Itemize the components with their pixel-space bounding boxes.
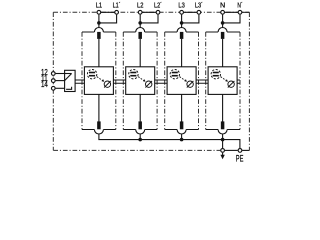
module 2 trigger arrow head	[143, 79, 146, 82]
spark gap 2 top curved electrode	[136, 28, 145, 33]
module 3 gap symbol lower bar	[172, 75, 178, 77]
svg-text:L1: L1	[96, 1, 102, 10]
module 4 trigger arrow head	[225, 79, 228, 82]
wire stub module 4 to PE bus	[222, 134, 224, 140]
terminal L3	[180, 10, 184, 14]
svg-text:14: 14	[41, 80, 48, 89]
module 3 disconnector circle	[187, 81, 193, 87]
module 2 box	[126, 67, 155, 95]
wire terminal 12 to contact box	[56, 73, 65, 75]
svg-text:L3: L3	[178, 1, 184, 10]
module 4 gap symbol lower bar	[213, 75, 219, 77]
module 3 trigger arrow (dashed)	[180, 77, 186, 81]
wire bar to module 3 box	[181, 39, 183, 67]
terminal PE	[238, 149, 242, 153]
wire riser L3´ to junction	[182, 15, 199, 23]
terminal 14	[51, 86, 55, 90]
module 2 enclosure right border (dash-dot)	[156, 32, 158, 130]
wire earth drop	[222, 140, 224, 149]
module 2 enclosure top edge	[123, 31, 157, 33]
node PE bus junction 4	[221, 138, 225, 142]
wire interconnection double line x113.4-125.7	[113, 80, 125, 83]
wire riser N´ to junction	[223, 15, 240, 23]
wire terminal row L2-L2´	[140, 11, 158, 13]
spark gap 1 top bar electrode	[97, 32, 101, 39]
wire module 3 box to bottom bar	[181, 94, 183, 121]
module 3 box	[167, 67, 196, 95]
wire PE terminal to right border	[242, 149, 249, 151]
spark gap 2 top bar electrode	[138, 32, 142, 39]
wire bar to module 4 box	[222, 39, 224, 67]
wire PE bus	[99, 134, 240, 148]
module 2 disconnector slash	[145, 81, 152, 88]
wire terminal row N-N´	[223, 11, 240, 13]
contact 14 stub	[66, 87, 72, 90]
node junction L3	[180, 21, 184, 25]
module 1 gap symbol dashed circle	[87, 70, 96, 79]
module 4 enclosure top edge	[206, 31, 240, 33]
module 4 enclosure left border (dash-dot)	[205, 32, 207, 130]
module 1 enclosure left border (dash-dot)	[81, 32, 83, 130]
module 2 disconnector circle	[146, 81, 152, 87]
terminal N´	[238, 10, 242, 14]
spark gap 2 bottom curved electrode	[136, 130, 145, 135]
wire module 4 box to bottom bar	[222, 94, 224, 121]
device enclosure right border (dash-dot)	[248, 12, 250, 150]
wire interconnection double line x154.7-167.1	[155, 80, 167, 83]
earth arrow	[222, 153, 224, 155]
spark gap 4 top bar electrode	[221, 32, 225, 39]
wire riser L2´ to junction	[140, 15, 158, 23]
module 4 box	[208, 67, 237, 95]
wire terminal row L3-L3´	[182, 11, 199, 13]
node PE bus junction 2	[138, 138, 142, 142]
device enclosure left border (dash-dot)	[52, 12, 54, 150]
module 1 trigger arrow head	[102, 79, 105, 82]
module 3 gap symbol upper bar	[172, 72, 178, 74]
spark gap 1 top curved electrode	[94, 28, 103, 33]
module 2 gap symbol lower bar	[130, 75, 136, 77]
device enclosure bottom border (dash-dot)	[53, 149, 220, 151]
module 3 gap symbol dashed circle	[170, 70, 179, 79]
wire interconnection double line x75.1-84.4	[75, 80, 84, 83]
terminal 11	[51, 79, 55, 83]
module 2 enclosure bottom edge	[123, 129, 157, 131]
module 3 enclosure top edge	[165, 31, 199, 33]
spark gap 3 top curved electrode	[177, 28, 186, 33]
node junction L1	[97, 21, 101, 25]
spark gap 4 bottom bar electrode	[221, 121, 225, 129]
contact box	[65, 70, 76, 91]
module 2 gap symbol upper bar	[130, 72, 136, 74]
wire riser L1	[98, 15, 100, 28]
spark gap 1 bottom bar electrode	[97, 121, 101, 129]
module 3 enclosure bottom edge	[165, 129, 199, 131]
terminal 12	[51, 72, 55, 76]
spark gap 3 top bar electrode	[180, 32, 184, 39]
terminal N	[221, 10, 225, 14]
module 2 gap symbol dashed circle	[129, 70, 138, 79]
module 4 enclosure right border (dash-dot)	[239, 32, 241, 130]
contact 12 stub	[65, 73, 72, 75]
module 4 gap symbol dashed circle	[211, 70, 220, 79]
module 4 disconnector circle	[228, 81, 234, 87]
wire riser L1´ to junction	[99, 15, 117, 23]
module 1 enclosure top edge	[82, 31, 116, 33]
spark gap 3 bottom bar electrode	[180, 121, 184, 129]
wire terminal row N-prime to right border	[242, 11, 249, 13]
spark gap 1 bottom curved electrode	[94, 130, 103, 135]
wire stub module 2 to PE bus	[139, 134, 141, 140]
spark gap 2 bottom bar electrode	[138, 121, 142, 129]
svg-text:L3´: L3´	[195, 1, 203, 10]
module 3 enclosure left border (dash-dot)	[164, 32, 166, 130]
module 1 disconnector slash	[104, 81, 111, 88]
wire bar to module 1 box	[98, 39, 100, 67]
wire terminal 11 to contact box	[56, 80, 65, 82]
wire terminal row L1-L1´	[99, 11, 117, 13]
svg-text:L2: L2	[137, 1, 143, 10]
module 1 gap symbol upper bar	[89, 72, 95, 74]
module 1 enclosure bottom edge	[82, 129, 116, 131]
wire interconnection double line x196.1-208.1	[196, 80, 208, 83]
terminal L1	[97, 10, 101, 14]
wire stub module 3 to PE bus	[181, 134, 183, 140]
node junction L2	[138, 21, 142, 25]
module 1 disconnector circle	[104, 81, 110, 87]
module 3 enclosure right border (dash-dot)	[198, 32, 200, 130]
svg-text:L1´: L1´	[113, 1, 121, 10]
wire riser L2	[139, 15, 141, 28]
wire terminal 14 to contact box	[56, 87, 65, 89]
terminal L1´	[115, 10, 119, 14]
wire riser N	[222, 15, 224, 28]
module 1 box	[84, 67, 113, 95]
module 3 disconnector slash	[187, 81, 194, 88]
wire module 1 box to bottom bar	[98, 94, 100, 121]
module 4 disconnector slash	[228, 81, 235, 88]
device enclosure top border (dash-dot)	[53, 11, 249, 13]
svg-text:PE: PE	[236, 154, 244, 164]
svg-text:L2´: L2´	[154, 1, 162, 10]
spark gap 4 bottom curved electrode	[218, 130, 227, 135]
module 2 enclosure left border (dash-dot)	[122, 32, 124, 130]
terminal earth	[221, 149, 225, 153]
node PE bus junction 3	[180, 138, 184, 142]
svg-text:N´: N´	[237, 1, 242, 10]
module 1 trigger arrow (dashed)	[97, 77, 103, 81]
terminal L2´	[156, 10, 160, 14]
module 4 enclosure bottom edge	[206, 129, 240, 131]
terminal L3´	[197, 10, 201, 14]
wire module 2 box to bottom bar	[139, 94, 141, 121]
svg-text:N: N	[220, 1, 225, 10]
wire riser L3	[181, 15, 183, 28]
node junction N	[221, 21, 225, 25]
module 1 enclosure right border (dash-dot)	[115, 32, 117, 130]
changeover contact arm	[65, 74, 72, 81]
module 3 trigger arrow head	[184, 79, 187, 82]
spark gap 3 bottom curved electrode	[177, 130, 186, 135]
module 4 trigger arrow (dashed)	[221, 77, 227, 81]
wire earth to PE terminal	[225, 149, 238, 151]
module 4 gap symbol upper bar	[213, 72, 219, 74]
spark gap 4 top curved electrode	[218, 28, 227, 33]
wire interconnection double line x237.1-239.9	[237, 80, 240, 83]
terminal L2	[138, 10, 142, 14]
module 1 gap symbol lower bar	[89, 75, 95, 77]
wire bar to module 2 box	[139, 39, 141, 67]
module 2 trigger arrow (dashed)	[138, 77, 144, 81]
